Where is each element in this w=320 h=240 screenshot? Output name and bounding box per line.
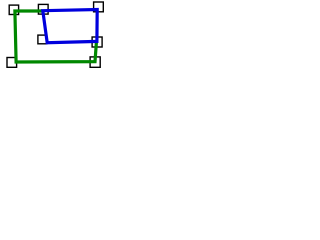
wire blue loop (closed quad: top-middle -> top-right -> right-middle -> left-middle) [43,10,97,43]
node B (top-middle handle square) [38,4,48,14]
node E (left-middle handle square) [38,35,47,44]
node D (right-middle handle square) [92,37,102,47]
node C (top-right handle square) [94,2,104,12]
node G (bottom-right handle square) [90,57,100,67]
node F (bottom-left handle square) [7,58,17,68]
node A (top-left handle square) [9,5,18,14]
wire green route (open polyline: top-middle -> top-left -> bottom-left -> bottom-right -> right-middle) [15,11,97,62]
